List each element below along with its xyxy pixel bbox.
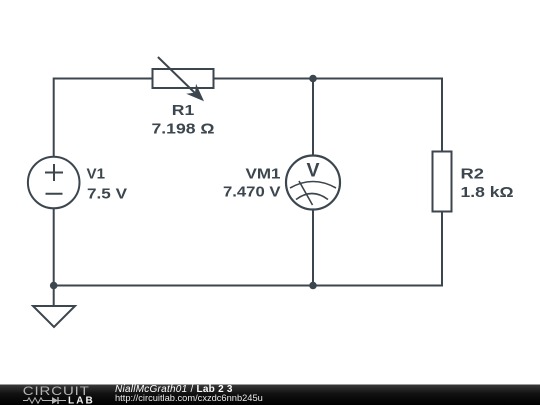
svg-text:V1: V1	[87, 165, 106, 182]
resistor R1 (variable, body)	[153, 57, 214, 101]
wire left vertical upper (V1 top to top wire)	[53, 78, 55, 158]
logo diode	[48, 397, 67, 404]
wire left vertical lower (V1 bottom to bottom wire)	[53, 208, 55, 287]
wire bottom horizontal	[54, 285, 442, 287]
svg-text:7.470 V: 7.470 V	[223, 184, 281, 201]
node junction bottom (VM1 to bottom wire)	[309, 282, 317, 290]
node junction top (VM1 to top wire)	[309, 75, 317, 83]
wire VM1 vertical upper	[312, 79, 314, 157]
wire right vertical lower (R2 to bottom wire)	[441, 211, 443, 287]
wire right vertical upper (top wire to R2)	[441, 78, 443, 153]
wire ground stub	[53, 286, 55, 307]
resistor R2	[433, 152, 452, 212]
svg-text:7.198 Ω: 7.198 Ω	[152, 121, 215, 138]
voltage source V1	[28, 157, 80, 209]
ground	[33, 306, 75, 327]
CircuitLab logo CIRCUIT text	[23, 385, 90, 398]
logo resistor zigzag	[23, 398, 48, 403]
svg-text:http://circuitlab.com/cxzdc6nn: http://circuitlab.com/cxzdc6nnb245u	[115, 393, 263, 403]
wire top horizontal from V1 branch to R2 branch	[54, 78, 442, 80]
svg-text:1.8 kΩ: 1.8 kΩ	[461, 184, 514, 201]
svg-text:V: V	[306, 160, 319, 182]
svg-text:R1: R1	[172, 102, 195, 119]
node junction ground	[50, 282, 58, 290]
svg-text:LAB: LAB	[68, 396, 95, 405]
svg-text:VM1: VM1	[246, 165, 281, 182]
voltmeter VM1	[286, 156, 340, 210]
svg-text:7.5 V: 7.5 V	[87, 186, 127, 203]
wire VM1 vertical lower	[312, 209, 314, 286]
footer bar	[0, 385, 540, 405]
svg-text:R2: R2	[461, 165, 485, 182]
